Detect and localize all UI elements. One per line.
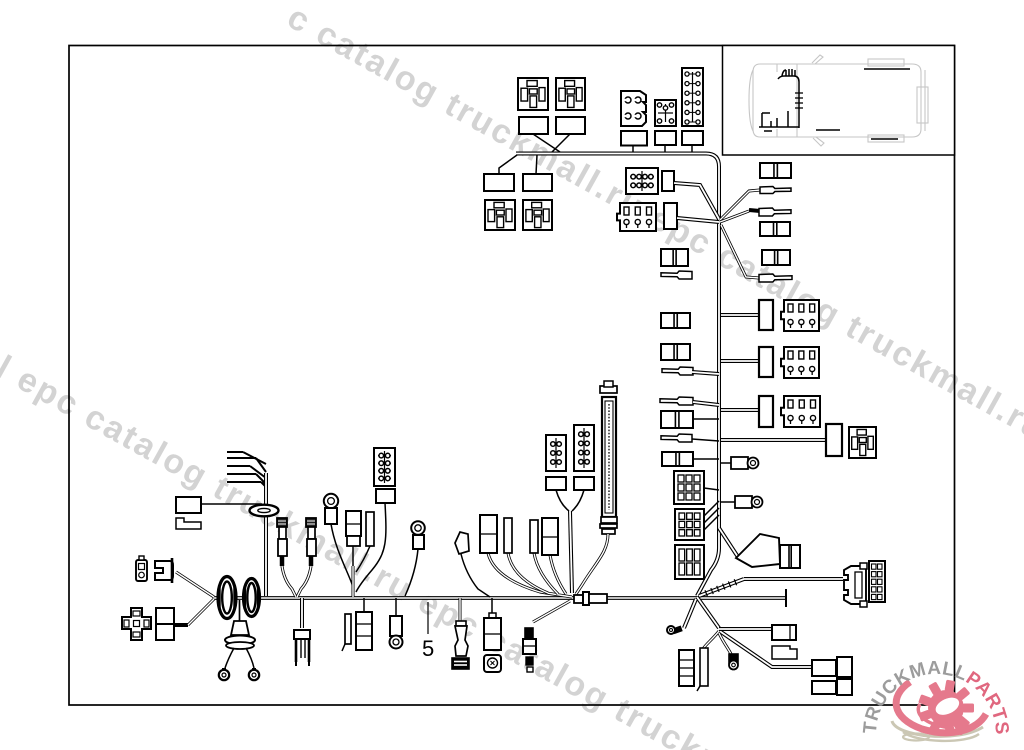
connector RL — [176, 497, 201, 513]
grid connector Ga — [674, 471, 704, 504]
eyelet terminal EY1 — [222, 668, 226, 672]
inline splice connector — [574, 595, 583, 603]
2-pin connector LP1 — [136, 560, 147, 581]
wire stub B2 — [664, 145, 666, 153]
pin connector V2b — [781, 347, 819, 378]
large pennant terminal — [736, 534, 780, 567]
spade terminal S3 — [759, 274, 792, 282]
logo swirl pink — [896, 682, 986, 733]
blade terminal V6 — [366, 512, 374, 546]
relay connector X2 — [556, 78, 585, 110]
comb connector G2 — [617, 203, 656, 231]
logo gear — [918, 680, 974, 737]
wire top bus to R1 — [499, 155, 517, 174]
wire L2 to top bus — [552, 134, 570, 152]
pin connector G1 8-pin — [626, 168, 658, 194]
stem to 3-cell connector — [363, 598, 365, 612]
wire trunk to V-pair 2 — [721, 359, 759, 363]
harness routing marks (black) inside inset — [759, 69, 910, 139]
grommet E2 — [244, 579, 260, 617]
wire stub B3 — [691, 145, 693, 153]
junction J2 wire right — [719, 627, 772, 631]
small pennant terminal PS — [455, 532, 469, 554]
connector housing under B1 — [621, 131, 647, 146]
ring terminal RT1 — [324, 494, 338, 508]
wire PS to trunk — [461, 554, 490, 597]
housing under MB — [574, 477, 594, 490]
connector housing L1 — [519, 117, 548, 134]
spark plug connector SP2 — [306, 518, 316, 527]
relay socket P2 — [523, 200, 552, 230]
grommet E1 — [218, 577, 236, 619]
mini bulb connector — [729, 654, 738, 663]
eyelet terminal at J1 — [672, 625, 683, 634]
wire fan to spade terminals — [720, 190, 760, 220]
connector housing under B3 — [682, 131, 703, 145]
stem to boot — [459, 598, 462, 621]
wire RT2 to trunk — [405, 549, 418, 596]
spark plug connector SP1 — [277, 518, 287, 527]
spade terminal D6 — [660, 397, 693, 405]
spade terminal D8 — [661, 434, 692, 442]
wire D5 to trunk — [692, 372, 719, 374]
relay socket P1 — [485, 200, 515, 230]
striped connector SC — [679, 650, 694, 686]
wire G2 to trunk — [677, 218, 719, 222]
relay connector X1 — [518, 78, 548, 110]
sensor window connector — [484, 655, 501, 672]
inset locator box — [723, 46, 955, 156]
Y wire spark plugs to trunk — [280, 556, 285, 566]
connector V3a — [759, 396, 773, 427]
Y wire from MA/MB — [556, 490, 569, 511]
wire to bulb socket 2 — [721, 501, 735, 503]
connector B1 with pins — [621, 91, 646, 126]
branch prong leads — [227, 452, 266, 487]
connector V5 2-cell — [346, 511, 361, 536]
wire G1 to trunk — [674, 183, 719, 219]
wire to large pennant terminal — [719, 528, 738, 557]
laced wire J1 to bracket — [699, 579, 744, 596]
sensor plug 2-cell — [489, 613, 496, 618]
grid connector Gc — [675, 545, 704, 579]
pin connector V3b — [781, 396, 820, 427]
wire J2 to mini bulb — [719, 633, 731, 654]
wire RT1 to trunk — [331, 524, 354, 597]
blade terminal BT1 — [345, 614, 351, 644]
wire LS to trunk — [173, 623, 188, 627]
connector B3 12-pin — [682, 68, 703, 126]
eyelet terminal EY2 — [252, 668, 256, 672]
connector 3-cell D1 — [661, 249, 688, 266]
wire top bus to R2 — [536, 155, 537, 174]
cross connector LX — [122, 608, 151, 640]
wire stub B1 — [632, 145, 634, 153]
wire J2 to double connector — [721, 632, 814, 667]
stem to bulb holder — [395, 598, 397, 616]
connector V1a — [759, 300, 773, 330]
truck top-view outline (gray) — [749, 55, 928, 146]
blade terminal A2b — [504, 518, 512, 553]
connector 3-cell D7 — [661, 411, 693, 428]
pin connector MB 8-pin — [574, 425, 594, 471]
fork connector — [294, 630, 310, 639]
connector C2 3-cell — [760, 222, 790, 236]
connector J2R — [772, 625, 796, 640]
wire LP2 to trunk — [176, 572, 214, 597]
connector housing R1 — [484, 174, 514, 191]
wire L1 to top bus — [533, 134, 560, 152]
wire RL to branch — [201, 503, 262, 505]
svg-text:5: 5 — [422, 636, 434, 661]
pin connector MD 8-pin — [374, 448, 395, 486]
stem to funnel — [239, 600, 241, 622]
connector V2a — [759, 347, 773, 377]
connector G1 housing — [662, 171, 674, 191]
housing under MA — [546, 477, 566, 490]
plug connector LP2 — [155, 561, 173, 580]
connector A3 2-cell — [542, 518, 558, 555]
connector 3-cell D4 — [661, 344, 690, 360]
stem to sensor plug — [491, 598, 493, 613]
wires of connector row to splice — [488, 553, 572, 597]
housing under MD — [376, 489, 395, 503]
connector A2 2-cell — [480, 515, 497, 553]
wires V5/V6 to trunk — [352, 546, 354, 566]
3-cell vertical connector — [356, 612, 372, 650]
relay socket V4b — [849, 427, 876, 458]
wire MD down to trunk — [356, 503, 386, 592]
bracket strip under RL — [176, 518, 201, 529]
funnel boot under grommets — [231, 621, 249, 635]
main horizontal trunk — [213, 596, 786, 600]
wire D8 to trunk — [692, 439, 719, 441]
2-cell drop connector — [525, 628, 533, 638]
double connector DC1 — [812, 660, 836, 676]
connector next to pennant — [780, 545, 800, 568]
connector 3-cell D9 — [662, 452, 693, 466]
bulb socket BS1 — [731, 457, 748, 469]
wire trunk to relay pair — [721, 438, 826, 442]
wire trunk to V-pair 1 — [721, 313, 759, 317]
wire D7 to trunk — [693, 418, 719, 420]
pin connector V1b — [781, 300, 819, 331]
fuse grid connector FG — [869, 561, 885, 602]
trunk end terminal bar — [785, 589, 787, 607]
ring terminal RT2 — [411, 521, 425, 535]
wire Ga to trunk — [704, 488, 719, 490]
bulb holder BH1 — [390, 616, 402, 636]
bracket connector BK — [844, 566, 866, 604]
branch trunk vertical (double) — [264, 473, 268, 596]
wire D6 to trunk — [693, 402, 719, 405]
wire to bracket connector — [744, 577, 843, 581]
pin connector MA 6-pin — [546, 435, 566, 471]
connector C3 3-cell — [762, 250, 790, 265]
wire J2 to blade connector — [703, 631, 719, 649]
spade terminal D2 — [661, 271, 692, 279]
connector housing under B2 — [655, 131, 676, 145]
spade terminal S2 — [759, 208, 791, 216]
connector B2 5-pin — [655, 100, 676, 126]
connector V4a — [826, 424, 842, 456]
spade terminal D5 — [662, 367, 693, 375]
junction J1 wires — [697, 597, 719, 628]
label leader line — [427, 602, 429, 634]
fork connector stem — [300, 598, 304, 628]
wires Gb to trunk — [704, 501, 719, 516]
grommet collar on branch — [250, 505, 279, 517]
double connector DC2 — [812, 681, 836, 694]
bulb socket BS2 — [735, 496, 752, 508]
bracket strip under J2R — [772, 646, 797, 659]
wires funnel to eyelets — [225, 648, 234, 668]
grid connector Gb — [675, 509, 704, 540]
stacked connectors LS — [156, 608, 174, 624]
drawing frame border — [69, 46, 955, 706]
level sensor (long tube) — [600, 386, 617, 393]
spade terminal S1 — [760, 187, 791, 194]
connector C1 3-cell — [760, 163, 791, 178]
wire trunk to V-pair 3 — [721, 408, 759, 412]
wire splice to 2-cell drop — [533, 601, 570, 622]
connector 3-cell D3 — [661, 313, 690, 328]
wire from level sensor to splice — [576, 534, 608, 594]
blade next to SC — [700, 648, 708, 686]
top bus and vertical trunk (double line) — [516, 154, 719, 597]
wire to bulb socket 1 — [721, 462, 731, 464]
blade terminal A3b — [530, 520, 538, 553]
boot connector stack — [456, 621, 466, 626]
wire D9 to trunk — [693, 458, 719, 460]
connector G2 housing — [664, 203, 677, 229]
logo swirl olive — [892, 721, 983, 736]
connector housing L2 — [556, 117, 585, 134]
connector housing R2 — [523, 174, 552, 191]
